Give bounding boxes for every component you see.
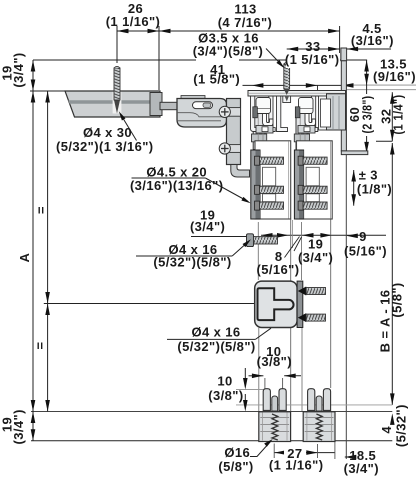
track carriage 1 roller (256, 98, 271, 114)
plate L-arm (231, 165, 250, 178)
hanger connector 1 (256, 126, 273, 134)
13.5 arrows (364, 60, 369, 72)
mid dim arrows (261, 233, 273, 238)
dim 18.5 tail (345, 456, 349, 458)
extension screw2 (286, 53, 288, 61)
svg-text:(1 1/16"): (1 1/16") (106, 14, 161, 29)
svg-text:(5/32")(1 3/16"): (5/32")(1 3/16") (56, 139, 154, 154)
19 top arrows (31, 60, 36, 72)
dim 19 top-left vertical (32, 60, 34, 91)
panel mid band (68, 100, 160, 104)
door panel horizontal (65, 91, 160, 117)
panel top reference line (30, 90, 66, 92)
white boxes under overlapping texts (196, 57, 239, 85)
extension line wall (339, 26, 341, 60)
svg-text:(3/8"): (3/8") (257, 354, 292, 369)
door2 screws (298, 156, 327, 210)
leader 19 underline (191, 236, 254, 238)
panel end block (150, 93, 162, 116)
svg-text:(3/4"): (3/4") (344, 461, 379, 476)
svg-text:(1 5/8"): (1 5/8") (193, 71, 240, 86)
bracket screw 2 (298, 313, 306, 322)
10 second arrows (243, 378, 248, 390)
svg-text:(1 1/4"): (1 1/4") (391, 95, 406, 135)
carriage inner contour (177, 113, 224, 117)
svg-text:10: 10 (217, 374, 232, 389)
door bottom line (31, 411, 392, 413)
screw4 O4x16 (247, 234, 278, 247)
svg-text:(1 1/16"): (1 1/16") (269, 457, 324, 472)
leader 8 (285, 237, 300, 258)
dim 32 vertical (391, 92, 393, 141)
mid dim line 8/19/9 (261, 234, 386, 236)
26 arrows (117, 29, 129, 34)
floor guide 2 (303, 389, 335, 442)
track mid wall (277, 96, 288, 132)
svg-text:± 3: ± 3 (359, 168, 378, 183)
svg-text:(3/4"): (3/4") (190, 219, 225, 234)
A arrows (31, 91, 36, 103)
leader 19 second (294, 237, 302, 251)
strip2 extension (301, 222, 303, 280)
svg-text:(1/8"): (1/8") (357, 182, 392, 197)
dim 27 line (275, 452, 318, 454)
svg-text:9: 9 (359, 229, 367, 244)
dim 26/113 horizontal line (117, 30, 340, 32)
leader O3.5x16 (266, 49, 283, 67)
10 first arrows (252, 374, 264, 379)
suspension plate (227, 99, 241, 165)
dim 33 line (287, 48, 340, 50)
18.5 arrow (345, 455, 357, 460)
41 arrows (252, 83, 264, 88)
extension line screw axis (116, 26, 118, 63)
door2 clamp strip (294, 150, 303, 219)
floor line (31, 440, 392, 442)
gray line guide top (236, 389, 263, 391)
track ch2 divider wall (307, 96, 318, 132)
svg-text:(3/4"): (3/4") (298, 250, 333, 265)
bracket door strip (297, 281, 303, 327)
svg-text:(5/8"): (5/8") (390, 282, 405, 317)
door1 edge extension (290, 219, 292, 411)
fascia lower line (345, 155, 347, 459)
svg-text:(5/32"): (5/32") (394, 404, 409, 447)
leader O4.5x20 underline (132, 177, 206, 179)
svg-text:(1 5/16"): (1 5/16") (285, 52, 340, 67)
carriage slot pin (203, 103, 211, 107)
door2 section (297, 141, 333, 219)
carriage top tab (181, 96, 205, 100)
leader O4x16 first (136, 255, 232, 257)
svg-text:(3/16")(13/16"): (3/16")(13/16") (130, 178, 223, 193)
carriage slot (193, 102, 213, 109)
leader O4x16 second (167, 338, 255, 340)
gray track flange lines (347, 84, 416, 86)
svg-text:(3/8"): (3/8") (208, 388, 243, 403)
33 arrows (287, 47, 299, 52)
27 arrows (275, 450, 287, 455)
4.5 arrow (347, 47, 359, 52)
strip1 extension (257, 222, 259, 280)
svg-text:4: 4 (379, 426, 394, 434)
carriage rod (160, 102, 177, 109)
door1 screws (255, 156, 284, 210)
bracket T contour (258, 288, 294, 320)
svg-text:(5/32")(5/8"): (5/32")(5/8") (177, 339, 255, 354)
leader O4x30 (121, 115, 137, 141)
track carriage 2 roller (299, 98, 314, 114)
plate collar bottom (227, 145, 241, 153)
track ch1 divider wall (265, 96, 276, 132)
equal arrows (45, 91, 50, 103)
panel screw slot (113, 92, 122, 114)
4 arrow bottom (390, 413, 395, 425)
ext guide centers (273, 444, 275, 459)
fascia clip (341, 48, 347, 61)
dim 41 line (243, 84, 354, 86)
svg-text:(3/4"): (3/4") (11, 52, 26, 87)
leader O16 (250, 442, 271, 457)
svg-text:(3/4")(5/8"): (3/4")(5/8") (193, 44, 264, 59)
dim B vertical (391, 143, 393, 405)
track bolt2 nut (295, 107, 300, 118)
svg-text:(5/16"): (5/16") (344, 243, 387, 258)
hanger connector 2 (298, 126, 315, 134)
ext guide walls (264, 378, 266, 389)
dim 32 bottom tick (376, 140, 392, 142)
19 bottom arrows (31, 412, 36, 424)
plate screw top (219, 106, 230, 117)
dim A vertical (32, 91, 34, 412)
track right block (319, 96, 327, 130)
track bottom hooks (263, 114, 274, 127)
113 arrows (159, 29, 171, 34)
fascia bottom lip (341, 151, 368, 155)
svg-text:(4 7/16"): (4 7/16") (218, 15, 273, 30)
32 arrows (390, 92, 395, 104)
svg-text:(5/8"): (5/8") (218, 459, 253, 474)
screw O4x30 (114, 66, 120, 113)
plate screw bottom (219, 143, 230, 154)
B arrows (390, 143, 395, 155)
carriage body (177, 99, 227, 128)
track left wall (251, 96, 260, 132)
track screw boss (283, 96, 291, 103)
bracket screw 1 (298, 287, 306, 296)
gray line above floor (236, 404, 392, 406)
svg-text:Ø4 x 16: Ø4 x 16 (191, 325, 240, 340)
arrows layer (31, 29, 395, 460)
svg-text:(5/32")(5/8"): (5/32")(5/8") (153, 255, 231, 270)
dim 10 first line (249, 375, 264, 377)
svg-text:=: = (33, 342, 48, 350)
svg-text:(2 3/8"): (2 3/8") (360, 96, 375, 134)
guide bracket (255, 281, 297, 327)
floor guide 1 (259, 389, 291, 442)
screw O3.5x16 (284, 63, 290, 96)
svg-text:=: = (34, 206, 49, 214)
svg-text:Ø4 x 30: Ø4 x 30 (83, 125, 132, 140)
door1 section (255, 141, 291, 219)
track bolt1 nut (253, 107, 258, 118)
svg-text:A: A (17, 252, 32, 262)
svg-text:(9/16"): (9/16") (373, 69, 416, 84)
plus-minus 3 arrow line (353, 170, 355, 206)
plus-minus arrows (351, 170, 356, 182)
track top plate (248, 91, 346, 97)
60 arrow (364, 142, 369, 154)
dim 10 second vertical (244, 368, 246, 378)
dim 13.5/60 vertical (366, 60, 368, 153)
dim 19 bottom-left vertical (32, 412, 34, 441)
svg-text:(3/4"): (3/4") (11, 409, 26, 444)
dim equal vertical (47, 91, 49, 412)
svg-text:Ø16: Ø16 (224, 445, 250, 460)
dim 4.5 tail (347, 48, 391, 50)
svg-text:(5/16"): (5/16") (257, 262, 300, 277)
plate collar top (227, 108, 241, 117)
extension line panel end (158, 26, 160, 90)
ceiling reference line (33, 59, 367, 61)
door1 clamp strip (251, 150, 260, 219)
hanger bolt 1 (253, 108, 265, 150)
hanger bolt 2 (296, 108, 308, 150)
svg-text:(3/16"): (3/16") (351, 33, 394, 48)
fascia strip (341, 61, 346, 151)
equal divider line (44, 303, 255, 305)
door2 edge extension (330, 219, 332, 388)
